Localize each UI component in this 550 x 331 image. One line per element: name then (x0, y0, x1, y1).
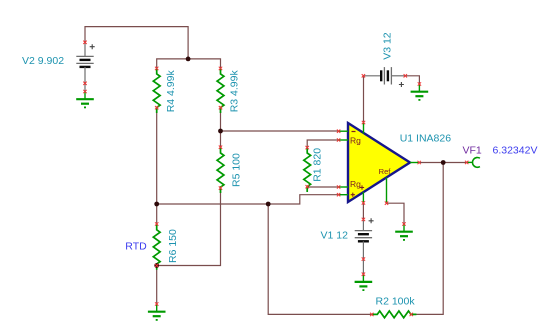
label R2 100k (376, 295, 416, 307)
op-amp Ref label (379, 167, 392, 176)
op-amp IN+ pin (339, 194, 348, 196)
op-amp Rg label top (350, 136, 361, 146)
svg-text:R2 100k: R2 100k (376, 295, 416, 307)
svg-text:R5 100: R5 100 (231, 153, 243, 187)
label V3 12 (382, 32, 394, 60)
resistor R6 RTD 150 (153, 224, 160, 270)
wire R4 bottom down to node (156, 108, 158, 204)
wire node row to IN+ step (157, 195, 339, 204)
wire V2 top to node (85, 27, 188, 59)
wire Ref pin to ground (387, 203, 405, 224)
svg-text:R4 4.99k: R4 4.99k (165, 70, 177, 113)
op-amp Rg top pin (339, 139, 348, 141)
ground right of V3 (411, 84, 429, 100)
resistor R5 100 (217, 147, 224, 193)
svg-text:R1 820: R1 820 (312, 148, 324, 182)
label R4 4.99k (165, 70, 177, 113)
voltage probe VF1 (467, 158, 480, 168)
label VF1 (463, 144, 482, 156)
op-amp Rg label bottom (350, 179, 361, 189)
label U1 INA826 (400, 133, 452, 145)
wire node down to R2 left (268, 204, 372, 314)
op-amp plus mark small (360, 185, 364, 189)
op-amp IN- pin (339, 130, 348, 132)
wire V3 right terminal to ground (405, 76, 419, 84)
wire V3 left terminal down to op-amp V+ (363, 76, 365, 123)
battery V2 (76, 42, 94, 83)
resistor R1 820 (304, 148, 311, 192)
svg-text:VF1: VF1 (463, 144, 482, 156)
ground below R6 (148, 304, 166, 320)
wire V2 bottom to ground (84, 83, 86, 91)
svg-text:R3 4.99k: R3 4.99k (229, 70, 241, 113)
battery V3 (363, 67, 405, 87)
svg-text:6.32342V: 6.32342V (493, 144, 538, 156)
wire IN- node to op-amp IN- pin (221, 130, 339, 132)
svg-text:Rg: Rg (350, 136, 361, 146)
wire R1 top to Rg pin (307, 140, 338, 148)
wire R2 right up to output node (411, 163, 443, 315)
op-amp Rg bottom pin (339, 186, 348, 188)
junction node output (441, 160, 446, 165)
svg-text:Ref: Ref (379, 167, 392, 176)
resistor R4 4.99k (153, 68, 160, 113)
svg-text:R6 150: R6 150 (167, 229, 179, 263)
svg-text:V3 12: V3 12 (382, 32, 394, 60)
op-amp minus mark (352, 131, 356, 133)
ground below Ref (395, 224, 413, 240)
svg-text:RTD: RTD (125, 241, 147, 253)
junction node R2 branch (266, 202, 271, 207)
svg-text:U1 INA826: U1 INA826 (400, 133, 452, 145)
op-amp plus mark IN+ (351, 193, 355, 197)
wire R6 bottom node to ground (156, 266, 158, 305)
label R3 4.99k (229, 70, 241, 113)
junction node R6 bottom (154, 263, 159, 268)
wire op-amp output to probe (419, 162, 467, 164)
label 6.32342V (493, 144, 538, 156)
op-amp V- pin (362, 192, 364, 203)
pin cross markers (83, 41, 468, 317)
resistor R2 100k (372, 311, 417, 318)
resistor R3 4.99k (217, 68, 224, 113)
wire node to R6 top (156, 204, 158, 224)
battery V1 (355, 218, 374, 259)
svg-text:Rg: Rg (350, 179, 361, 189)
op-amp output pin (410, 162, 419, 164)
wire node to R4/R3 tops (157, 59, 221, 69)
op-amp U1 INA826 triangle (348, 123, 410, 202)
label V2 9.902 (22, 55, 64, 67)
wire R1 bottom to Rg pin (307, 186, 338, 188)
label RTD (125, 241, 147, 253)
wire V1 bottom to ground (362, 259, 364, 274)
op-amp Ref pin (386, 178, 388, 204)
wire IN- node to R5 top (220, 131, 222, 147)
svg-text:V2 9.902: V2 9.902 (22, 55, 64, 67)
junction node R4/R3 top (186, 57, 191, 62)
label V1 12 (321, 229, 349, 241)
junction node left row (154, 202, 159, 207)
ground below V2 (76, 92, 94, 108)
label R1 820 (312, 148, 324, 182)
op-amp V+ pin (363, 123, 365, 134)
wire R3 bottom to IN- node (220, 108, 222, 131)
junction node IN- (218, 129, 223, 134)
svg-text:V1 12: V1 12 (321, 229, 349, 241)
wire op-amp V- down to V1 top (362, 203, 364, 220)
ground below V1 (355, 274, 373, 290)
label R6 150 (167, 229, 179, 263)
label R5 100 (231, 153, 243, 187)
wire R5 bottom down and left to R6 bottom node (157, 188, 221, 265)
